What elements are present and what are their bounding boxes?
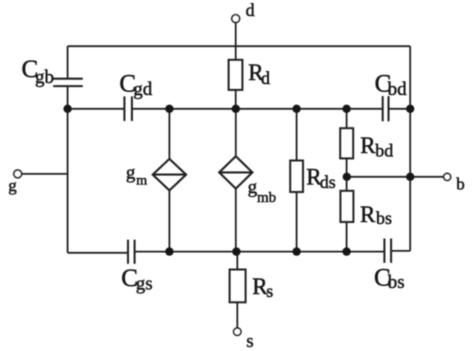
wire C_bd to right rail	[389, 108, 411, 110]
label g_m	[126, 163, 147, 189]
svg-text:bd: bd	[388, 79, 408, 100]
label C_gb	[22, 56, 55, 88]
junction dot b-row at right rail	[406, 173, 414, 181]
capacitor C_gb	[53, 79, 83, 86]
terminal g	[14, 170, 22, 178]
svg-text:s: s	[266, 281, 273, 301]
svg-text:bs: bs	[388, 272, 405, 293]
svg-text:bd: bd	[375, 141, 393, 161]
label b	[456, 174, 465, 193]
svg-text:R: R	[360, 133, 376, 158]
wire bottom rail to R_s	[236, 252, 238, 270]
label R_d	[248, 60, 270, 88]
wire b-row node line	[347, 176, 444, 178]
wire bottom-left gate corner to C_gs	[68, 252, 128, 254]
junction dot bottom rail at g_mb / R_s	[232, 247, 240, 255]
wire d-row to R_bd	[346, 109, 348, 128]
svg-text:d: d	[261, 68, 270, 88]
junction dot d-row at R_bd	[342, 105, 350, 113]
capacitor C_bd	[383, 96, 389, 121]
resistor R_d	[229, 60, 243, 90]
svg-text:s: s	[246, 331, 253, 351]
junction dot d-row at g_m	[165, 105, 173, 113]
junction dot bottom rail at g_m	[165, 247, 173, 255]
terminal b	[444, 173, 451, 180]
svg-text:g: g	[8, 176, 17, 195]
label C_bd	[375, 71, 408, 100]
junction dot d-row at R_d / g_mb	[232, 105, 240, 113]
controlled source g_m (diamond)	[153, 159, 186, 191]
wire R_bs to bottom rail	[346, 222, 348, 252]
svg-text:gb: gb	[35, 67, 54, 88]
resistor R_s	[230, 270, 246, 303]
label C_gs	[121, 265, 152, 294]
wire g_m to bottom rail	[168, 190, 170, 251]
wire g_mb to bottom rail	[235, 189, 237, 252]
wire d-row to R_ds	[296, 109, 298, 161]
wire top rail (b net)	[68, 45, 411, 47]
junction dot gate node at C_gb	[63, 105, 71, 113]
terminal d	[232, 15, 240, 23]
wire d-row node line	[132, 108, 383, 110]
resistor R_bs	[340, 191, 353, 222]
wire d terminal to R_d	[235, 23, 237, 60]
svg-text:g: g	[126, 163, 136, 184]
label R_bd	[360, 133, 393, 160]
wire d-row to g_m source	[168, 109, 170, 159]
wire bottom rail (s net)	[135, 251, 385, 253]
label R_bs	[360, 202, 392, 228]
svg-text:bs: bs	[376, 208, 392, 228]
svg-text:d: d	[246, 0, 255, 20]
terminal s	[234, 328, 241, 335]
resistor R_bd	[340, 128, 353, 158]
svg-text:m: m	[136, 173, 147, 188]
label C_gd	[119, 71, 152, 101]
wire C_bs to right rail	[391, 250, 410, 252]
wire gate row to C_gd	[68, 108, 125, 110]
wire C_gb top lead	[67, 46, 69, 78]
junction dot right rail at C_bd	[406, 105, 414, 113]
wire R_ds to bottom rail	[296, 192, 298, 252]
label g_mb	[248, 177, 277, 206]
label C_bs	[374, 264, 405, 293]
svg-text:ds: ds	[320, 172, 336, 192]
junction dot bottom rail at R_ds	[292, 247, 300, 255]
label R_ds	[306, 165, 336, 193]
svg-text:b: b	[456, 174, 465, 193]
wire R_d to d-row	[235, 90, 237, 109]
svg-text:R: R	[360, 202, 376, 227]
wire g terminal lead	[21, 173, 67, 175]
controlled source g_mb (diamond)	[219, 156, 252, 188]
wire right rail (b net)	[409, 46, 411, 251]
wire b-row to R_bs	[346, 177, 348, 191]
junction dot d-row at R_ds	[292, 105, 300, 113]
capacitor C_bs	[384, 239, 391, 263]
capacitor C_gs	[128, 240, 135, 264]
label d	[246, 0, 255, 20]
label R_s	[252, 274, 273, 301]
svg-text:gs: gs	[136, 273, 153, 294]
svg-text:mb: mb	[257, 190, 276, 206]
label g	[8, 176, 17, 195]
wire R_s to s terminal	[236, 302, 238, 328]
svg-text:gd: gd	[133, 79, 153, 100]
wire g vertical (gate net)	[67, 86, 69, 253]
wire R_bd to b-row	[346, 158, 348, 176]
capacitor C_gd	[124, 96, 131, 121]
label s	[246, 331, 253, 351]
junction dot b-row at R_bd/R_bs	[343, 173, 351, 181]
junction dot bottom rail at R_bs	[342, 247, 350, 255]
wire d-row to g_mb source	[235, 109, 237, 156]
resistor R_ds	[290, 161, 303, 193]
